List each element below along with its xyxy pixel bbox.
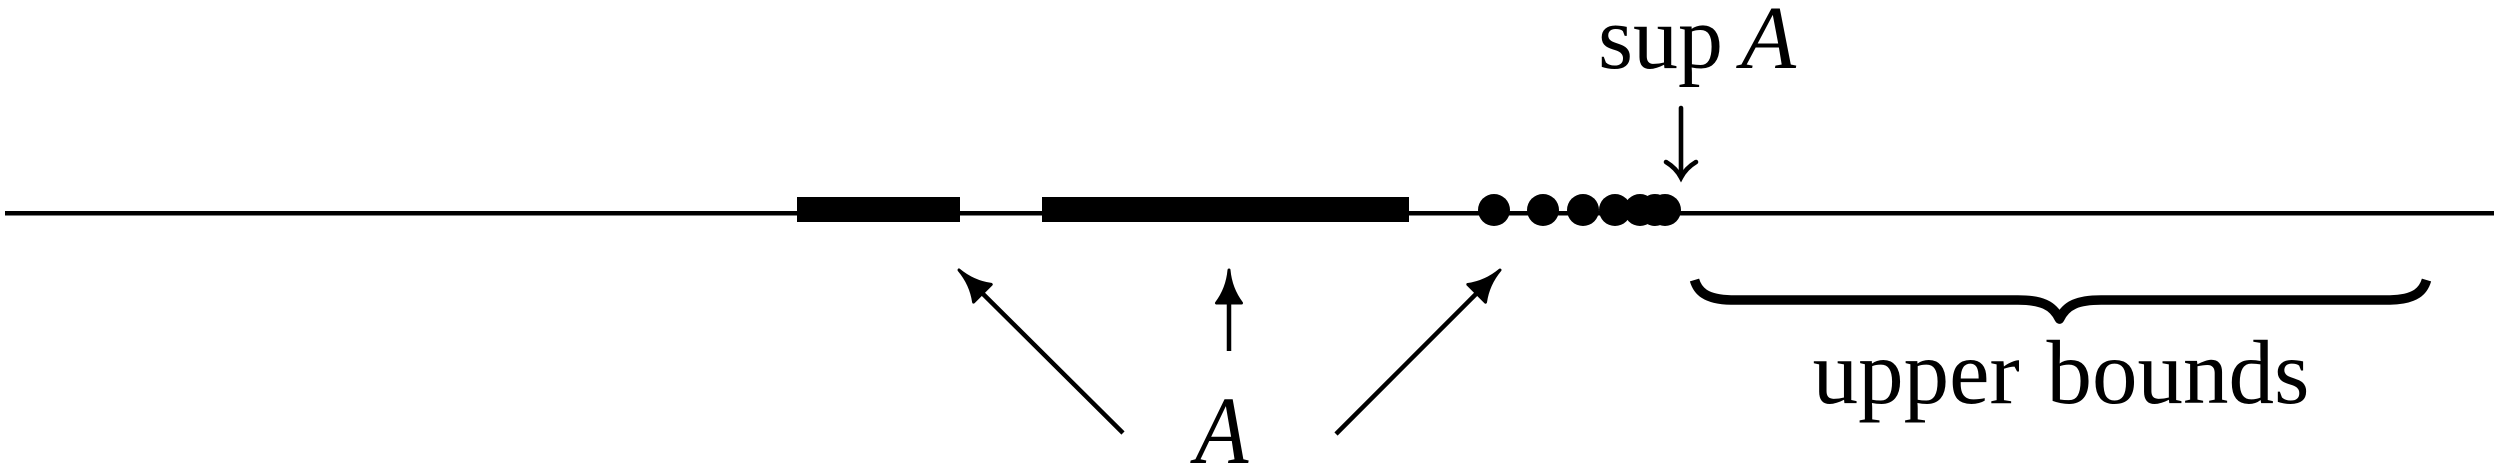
svg-text:A: A [1189,377,1249,468]
svg-text:sup: sup [1598,0,1723,88]
svg-text:upper bounds: upper bounds [1813,322,2310,423]
svg-text:A: A [1736,0,1797,88]
